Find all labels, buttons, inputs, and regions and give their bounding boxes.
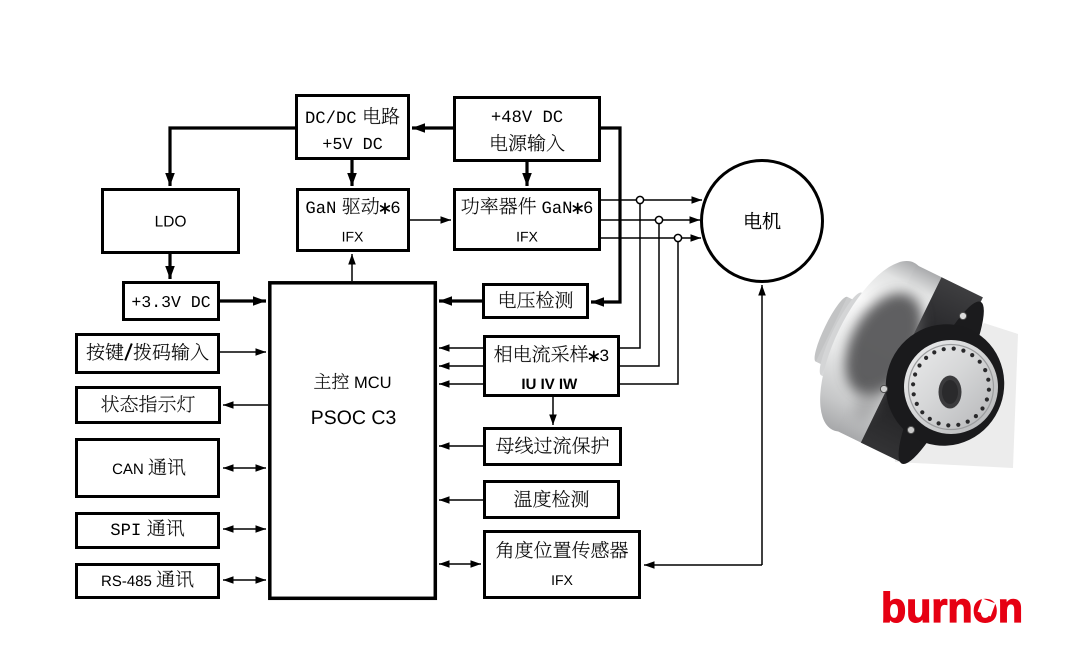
label 功率器件 GaN*6 (461, 197, 535, 215)
label IFX sensor (552, 575, 572, 585)
label 主控 MCU (314, 373, 349, 389)
box angle position sensor IFX (485, 532, 640, 598)
label 电机 (746, 212, 781, 229)
wire SPI to MCU bidirectional (223, 528, 266, 530)
wire sampling down to overcurrent protection (552, 397, 554, 425)
label 电压检测 (500, 291, 572, 308)
label RS-485 通讯 (102, 576, 151, 587)
box key/dip switch input (77, 335, 219, 373)
box main MCU PSOC C3 (270, 283, 436, 599)
node junction phase U (636, 196, 643, 203)
label LDO (156, 216, 186, 227)
box bus overcurrent protection (485, 429, 621, 465)
wire MCU to status LED (223, 404, 268, 406)
wire +48V down to power device (525, 162, 528, 186)
box status LED (77, 388, 220, 423)
box DC/DC circuit +5V DC (297, 96, 409, 159)
box +48V DC power input (455, 98, 600, 161)
wire +48V to DC/DC (412, 126, 453, 129)
label 状态指示灯 (101, 395, 194, 412)
wire power device to motor phase W (601, 237, 701, 239)
box temperature detection (485, 482, 619, 518)
label 母线过流保护 (496, 436, 609, 454)
label IFX power (517, 232, 537, 242)
label 角度位置传感器 (496, 541, 628, 559)
box RS-485 comm (77, 565, 219, 598)
wire DC/DC to LDO (170, 128, 295, 186)
wire sampling IV to MCU (439, 365, 483, 367)
box GaN driver x6 IFX (298, 190, 409, 251)
wire phase W sense down to sampling (620, 242, 678, 384)
wire motor to angle sensor vertical (761, 285, 763, 565)
wire RS-485 to MCU bidirectional (223, 579, 266, 581)
label IFX driver (343, 232, 363, 242)
wire MCU to angle sensor bidirectional (439, 563, 481, 565)
wire key input to MCU (220, 351, 266, 353)
wire temperature detection to MCU (439, 499, 483, 501)
label +5V DC (323, 138, 382, 149)
motor circle 电机 (702, 161, 823, 282)
wire LDO down to +3.3V (168, 254, 171, 279)
wire +3.3V to MCU (220, 299, 266, 302)
box power device GaN x6 IFX (455, 190, 600, 250)
box phase current sampling x3 (485, 337, 619, 396)
box CAN comm (77, 440, 219, 497)
node junction phase V (655, 216, 662, 223)
wire phase U sense down to sampling (620, 204, 640, 348)
wire sampling IU to MCU (439, 347, 483, 349)
wire phase V sense down to sampling (620, 224, 659, 366)
label 温度检测 (514, 490, 588, 508)
wire CAN to MCU bidirectional (223, 467, 266, 469)
label 相电流采样*3 (494, 345, 588, 363)
label 电源输入 (492, 134, 565, 152)
box LDO (103, 190, 239, 253)
label 按键/拨码输入 (87, 343, 124, 361)
label SPI 通讯 (111, 523, 140, 535)
wire overcurrent protection to MCU (439, 445, 483, 447)
wire sampling IW to MCU (439, 383, 483, 385)
burnon logo (884, 592, 1021, 623)
wire MCU up to GaN driver (351, 254, 353, 281)
label +3.3V DC (132, 296, 210, 307)
wire voltage detection to MCU (439, 299, 482, 302)
box voltage detection (484, 285, 588, 318)
label CAN 通讯 (113, 464, 143, 475)
label DC/DC 电路 (306, 111, 356, 124)
wire +48V to voltage detection (591, 128, 620, 302)
box +3.3V DC (124, 283, 219, 320)
node junction phase W (674, 234, 681, 241)
label +48V DC (492, 110, 563, 122)
wire power device to motor phase V (601, 219, 700, 221)
wire DC/DC down to GaN driver (350, 160, 353, 186)
wire GaN driver to power device (410, 219, 451, 221)
box SPI comm (77, 514, 219, 548)
wire power device to motor phase U (601, 199, 702, 201)
motor photo (786, 240, 1021, 472)
label GaN 驱动*6 (306, 201, 335, 213)
label PSOC C3 (312, 410, 395, 424)
label IU IV IW (522, 379, 577, 389)
wire motor to angle sensor horizontal (644, 564, 762, 566)
